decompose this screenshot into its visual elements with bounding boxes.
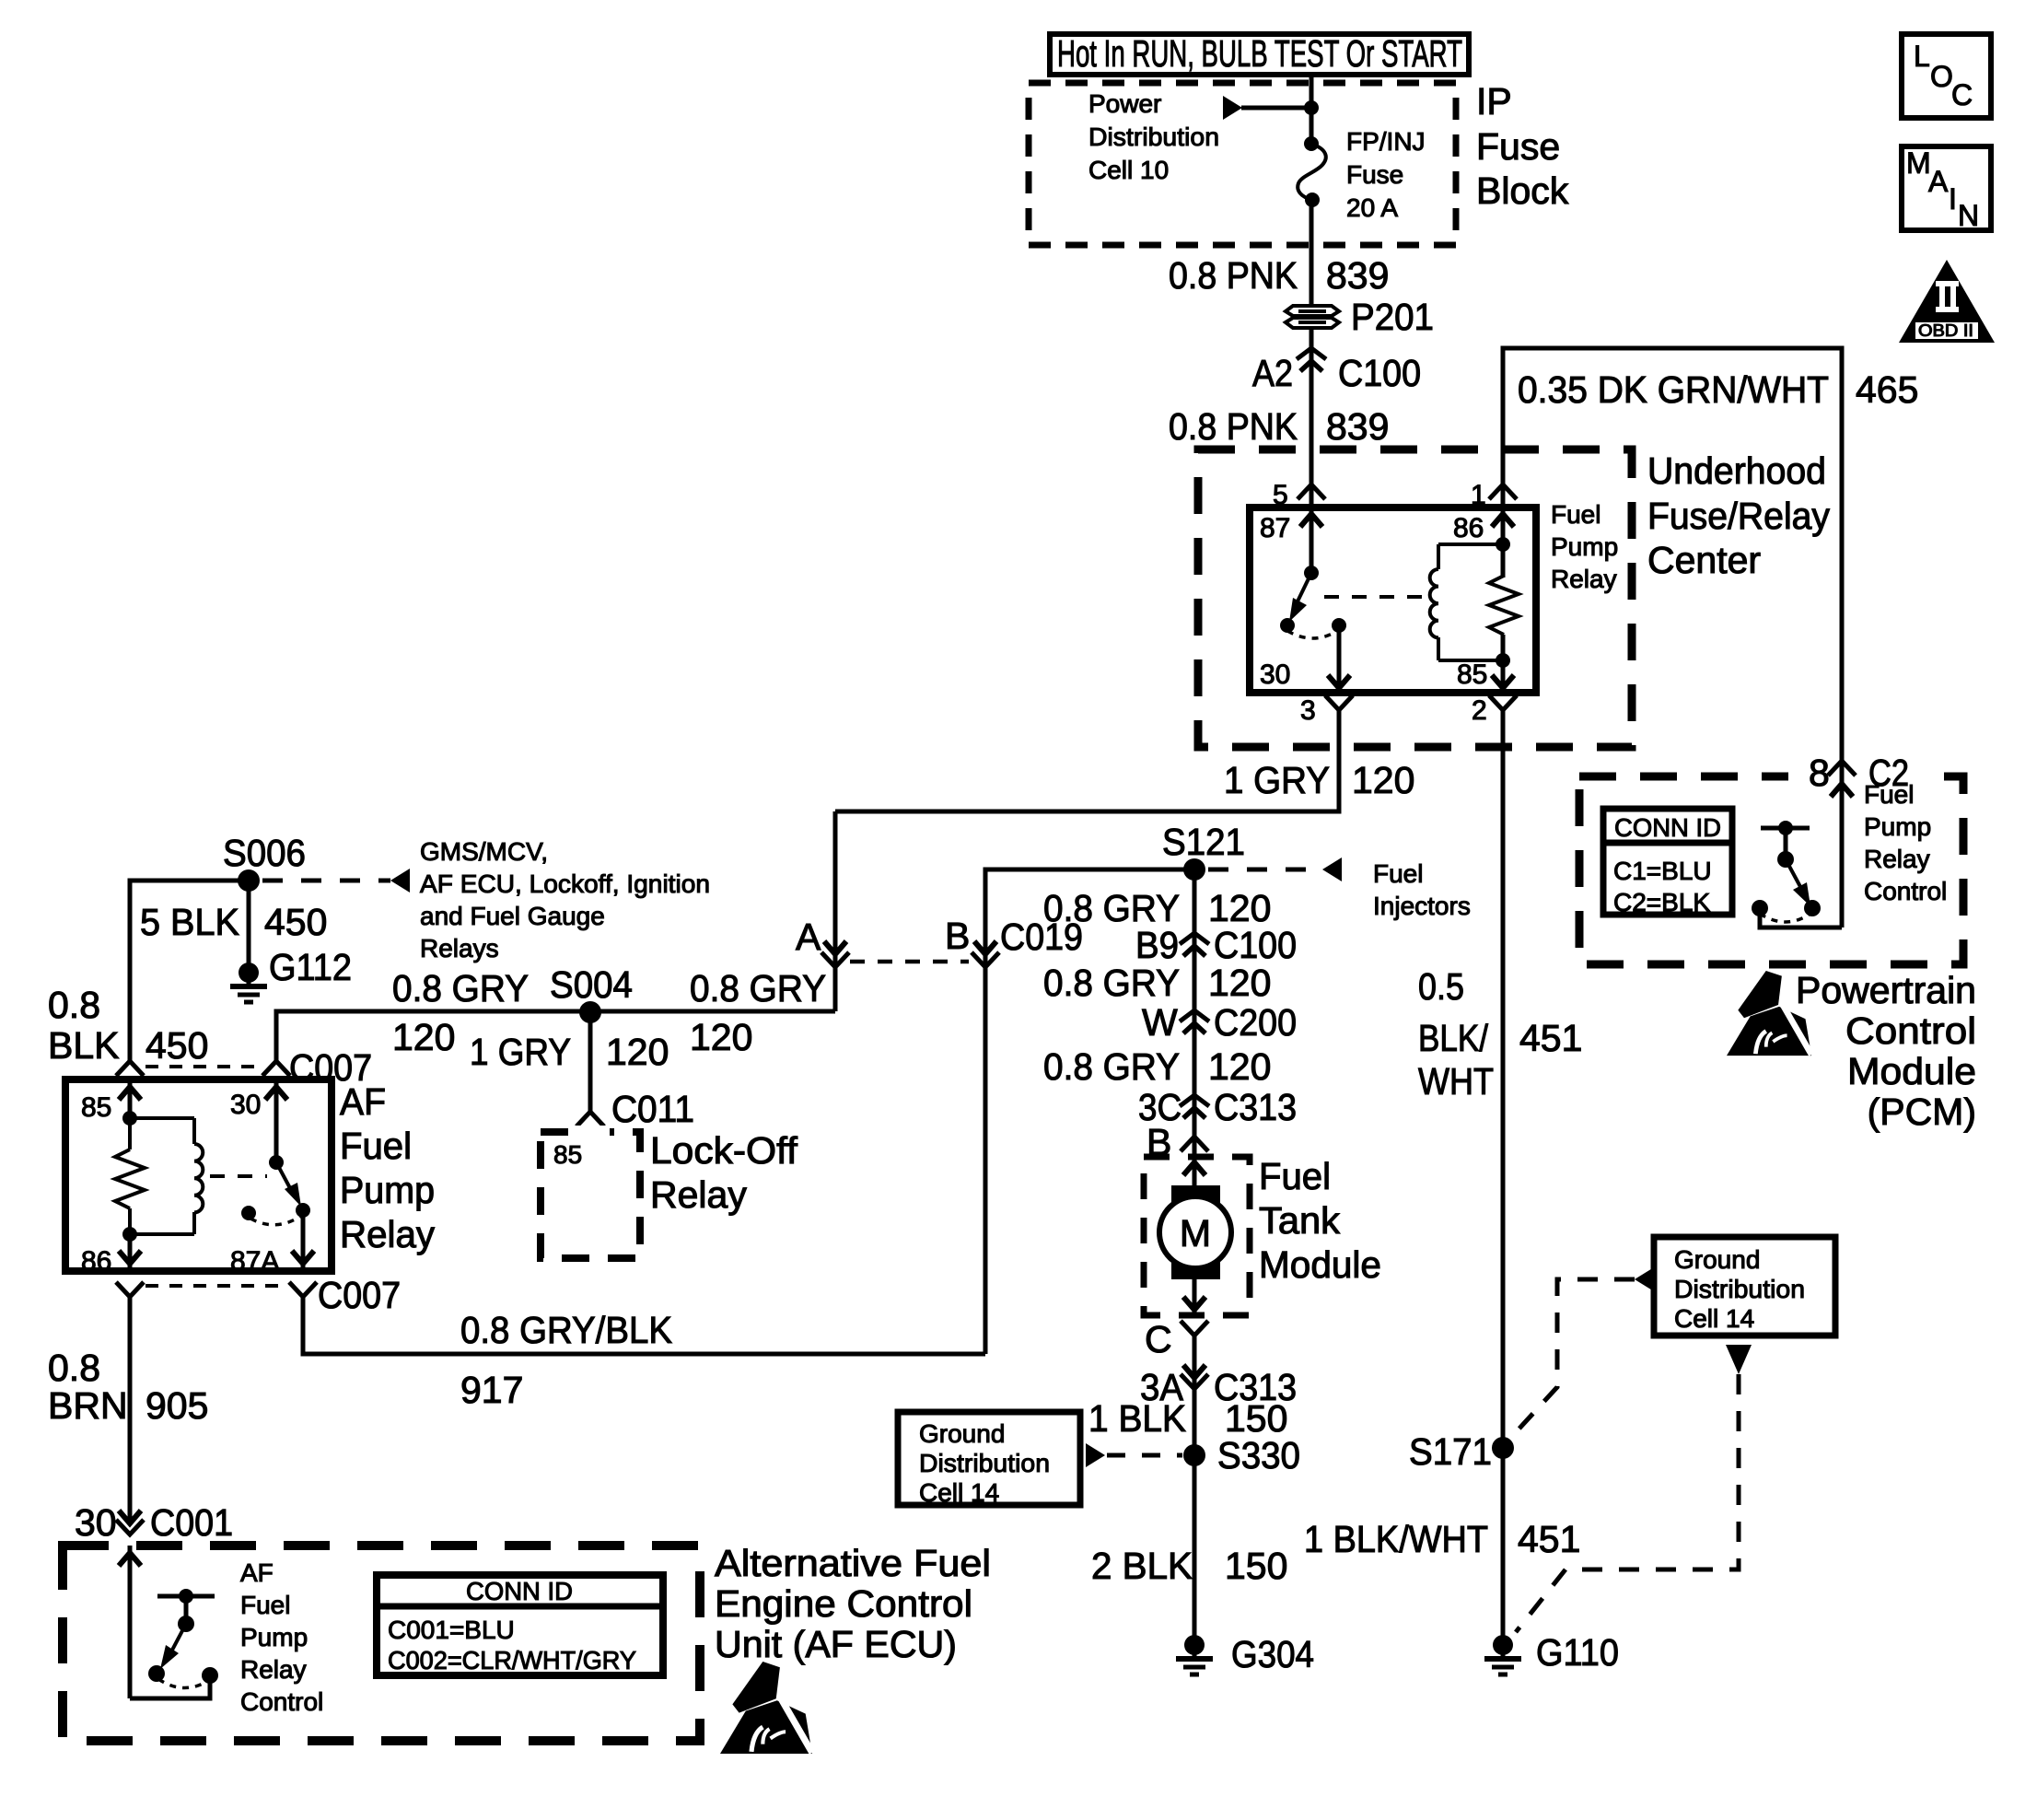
svg-text:Fuse: Fuse: [1346, 160, 1403, 189]
svg-text:C007: C007: [318, 1274, 401, 1316]
svg-text:0.8 GRY: 0.8 GRY: [392, 967, 529, 1009]
ESD symbol near AF ECU: [720, 1662, 812, 1754]
svg-text:5 BLK: 5 BLK: [140, 901, 239, 943]
wire: motor to pin C: [1193, 1275, 1197, 1315]
svg-text:451: 451: [1518, 1518, 1580, 1560]
svg-text:0.8 PNK: 0.8 PNK: [1169, 405, 1298, 448]
svg-text:0.35 DK GRN/WHT: 0.35 DK GRN/WHT: [1518, 368, 1829, 411]
svg-text:Pump: Pump: [240, 1623, 308, 1651]
svg-text:Control: Control: [1864, 877, 1947, 905]
svg-text:Module: Module: [1847, 1050, 1976, 1092]
AF relay box: [65, 1079, 332, 1271]
wire: P201 to C100: [1309, 328, 1314, 453]
ground G112: [230, 962, 267, 1002]
svg-text:450: 450: [145, 1024, 208, 1067]
svg-text:B: B: [945, 915, 970, 957]
svg-text:Distribution: Distribution: [1674, 1275, 1805, 1303]
wire: S121 branch to B/C019: [985, 869, 1194, 1354]
svg-text:30: 30: [75, 1501, 117, 1544]
svg-text:BLK/: BLK/: [1418, 1017, 1489, 1059]
svg-text:Engine Control: Engine Control: [715, 1582, 972, 1625]
svg-text:AF: AF: [340, 1080, 386, 1123]
svg-text:M: M: [1180, 1212, 1211, 1254]
svg-text:839: 839: [1326, 254, 1389, 297]
svg-text:0.8 GRY: 0.8 GRY: [690, 967, 826, 1009]
svg-text:1 GRY: 1 GRY: [1224, 759, 1330, 801]
dashed reference to GMS/MCV relays: [262, 879, 390, 883]
svg-text:S004: S004: [550, 963, 633, 1006]
svg-text:1 GRY: 1 GRY: [470, 1031, 571, 1073]
svg-text:30: 30: [230, 1090, 261, 1120]
svg-text:30: 30: [1260, 659, 1290, 690]
relay pin 87 lead: [1309, 507, 1314, 573]
svg-text:3: 3: [1300, 695, 1316, 726]
ESD symbol near PCM: [1727, 971, 1811, 1056]
connector C007 (bottom, from 87A): [289, 1282, 317, 1297]
fuel pump relay box: [1250, 507, 1536, 693]
svg-text:Fuel: Fuel: [1551, 500, 1600, 529]
svg-text:GMS/MCV,: GMS/MCV,: [420, 837, 548, 866]
wire: 0.35 DK GRN/WHT 465 run: [1503, 348, 1842, 761]
svg-text:Block: Block: [1476, 169, 1569, 212]
svg-text:Cell 14: Cell 14: [1674, 1304, 1754, 1333]
svg-text:A: A: [1928, 165, 1949, 198]
AF relay mechanical link: [210, 1174, 267, 1178]
svg-text:O: O: [1930, 60, 1953, 93]
svg-text:FP/INJ: FP/INJ: [1346, 127, 1426, 156]
dashed connector line A to B: [850, 960, 969, 964]
connector pin C of fuel tank module: [1181, 1321, 1208, 1336]
splice S004: [579, 1001, 601, 1023]
svg-text:120: 120: [690, 1016, 752, 1058]
svg-text:N: N: [1958, 199, 1979, 232]
svg-text:85: 85: [81, 1092, 111, 1123]
wire: pin C down to G304: [1193, 1336, 1197, 1645]
connector pin 2: [1489, 695, 1517, 710]
svg-text:8: 8: [1809, 752, 1830, 794]
AF relay pin 85 lead: [128, 1079, 133, 1118]
svg-text:451: 451: [1519, 1017, 1582, 1059]
connector pin B of fuel tank module: [1181, 1137, 1208, 1151]
svg-text:C2=BLK: C2=BLK: [1613, 888, 1710, 916]
svg-text:S330: S330: [1217, 1434, 1300, 1476]
node A vertical with C019 pin A: [833, 811, 838, 1011]
wire: contact to pin 3: [1337, 625, 1342, 693]
AF ECU dashed box: [63, 1546, 700, 1741]
svg-text:Fuel: Fuel: [340, 1125, 412, 1167]
relay switch arm with arrowhead: [1298, 573, 1311, 601]
svg-text:Ground: Ground: [1674, 1245, 1760, 1274]
svg-text:S121: S121: [1162, 821, 1245, 863]
svg-text:S171: S171: [1409, 1430, 1492, 1473]
junction dot at branch: [1304, 100, 1319, 115]
svg-text:87A: 87A: [230, 1246, 279, 1277]
wire: pin 2 down (0.5 BLK/WHT 451): [1501, 710, 1506, 1645]
svg-text:C: C: [1951, 78, 1973, 111]
svg-text:C001=BLU: C001=BLU: [388, 1616, 515, 1644]
wire: S121 down to fuel tank module: [1193, 869, 1197, 1157]
svg-text:Fuse/Relay: Fuse/Relay: [1647, 495, 1830, 537]
wire: pin lead inside AF ECU: [128, 1546, 133, 1698]
MAIN box icon: [1902, 146, 1991, 230]
connector C007 (top, pin to 85): [116, 1061, 144, 1076]
svg-text:Fuel: Fuel: [240, 1591, 290, 1619]
wire: contact 87A down: [301, 1210, 306, 1271]
relay coil and resistor block: [1437, 544, 1440, 569]
svg-text:C002=CLR/WHT/GRY: C002=CLR/WHT/GRY: [388, 1646, 636, 1674]
svg-text:C100: C100: [1214, 924, 1297, 966]
svg-text:85: 85: [1457, 659, 1487, 690]
IP Fuse Block dashed box: [1029, 83, 1456, 245]
dashed reference from ground distribution (left): [1086, 1443, 1105, 1467]
wire: S004 down to C011 (1 GRY 120): [588, 1012, 593, 1112]
wire: S004 run (0.8 GRY 120): [276, 1011, 835, 1061]
svg-text:0.8 GRY: 0.8 GRY: [1043, 962, 1180, 1004]
connector C011 pin: [576, 1112, 604, 1126]
svg-text:Lock-Off: Lock-Off: [650, 1129, 798, 1172]
connector B9 / C100 crossing: [1180, 933, 1209, 956]
svg-text:450: 450: [264, 901, 327, 943]
svg-text:Cell 14: Cell 14: [919, 1478, 999, 1507]
svg-text:C011: C011: [611, 1088, 694, 1130]
svg-text:I: I: [1949, 182, 1957, 216]
connector W / C200 crossing: [1180, 1010, 1209, 1033]
OBD II triangle icon: [1899, 260, 1995, 343]
svg-text:Tank: Tank: [1259, 1199, 1341, 1242]
svg-text:P201: P201: [1351, 296, 1434, 338]
switch: AF fuel pump relay control driver: [157, 1594, 215, 1599]
connector crossing A2 / C100: [1297, 348, 1326, 371]
connector pin 1: [1489, 484, 1517, 499]
svg-text:86: 86: [81, 1246, 111, 1277]
svg-text:Relay: Relay: [340, 1213, 435, 1255]
svg-text:AF: AF: [240, 1558, 274, 1587]
svg-text:G304: G304: [1231, 1633, 1314, 1675]
svg-text:Fuse: Fuse: [1476, 125, 1560, 168]
svg-text:1 BLK/WHT: 1 BLK/WHT: [1304, 1518, 1488, 1560]
splice S006: [238, 869, 260, 892]
connector 3A / C313 crossing: [1183, 1365, 1205, 1378]
svg-text:120: 120: [1352, 759, 1414, 801]
svg-text:(PCM): (PCM): [1868, 1091, 1976, 1133]
svg-text:Relay: Relay: [1551, 565, 1617, 593]
PCM dashed box: [1579, 776, 1963, 964]
wire: fuse to P201: [1309, 200, 1314, 305]
wire: pin 3 down and across (1 GRY 120): [835, 710, 1339, 811]
svg-text:BRN: BRN: [48, 1384, 128, 1427]
wire: S006 left and down to C007 (0.8 BLK 450): [130, 881, 249, 1061]
relay coil resistor zigzag: [1501, 507, 1506, 577]
svg-text:120: 120: [606, 1031, 669, 1073]
svg-text:B9: B9: [1135, 924, 1179, 966]
svg-text:120: 120: [392, 1016, 455, 1058]
svg-text:Pump: Pump: [1864, 812, 1931, 841]
svg-text:Injectors: Injectors: [1373, 892, 1471, 920]
svg-text:Module: Module: [1259, 1243, 1381, 1286]
relay switch contacts: [1280, 618, 1295, 633]
svg-text:Alternative Fuel: Alternative Fuel: [715, 1542, 991, 1584]
relay mechanical link (dashed): [1324, 595, 1424, 599]
wire: 0.8 GRY/BLK 917 run to B/C019: [303, 1297, 985, 1354]
svg-text:Center: Center: [1647, 539, 1761, 581]
svg-text:G110: G110: [1536, 1631, 1619, 1674]
svg-text:Ground: Ground: [919, 1419, 1005, 1448]
svg-text:Fuel: Fuel: [1864, 780, 1914, 809]
svg-text:85: 85: [553, 1140, 582, 1169]
svg-text:OBD II: OBD II: [1918, 321, 1973, 340]
svg-text:L: L: [1914, 40, 1930, 73]
svg-text:IP: IP: [1476, 80, 1512, 122]
AF relay pin 30 lead: [274, 1079, 279, 1162]
svg-text:150: 150: [1225, 1545, 1287, 1587]
connector pin 3: [1325, 695, 1353, 710]
svg-text:CONN ID: CONN ID: [466, 1577, 573, 1605]
svg-text:M: M: [1906, 146, 1931, 180]
CONN ID table (PCM): [1603, 809, 1732, 915]
splice S330: [1183, 1444, 1205, 1466]
svg-text:Control: Control: [240, 1687, 323, 1716]
dashed reference to G110: [1726, 1345, 1752, 1374]
svg-text:Fuel: Fuel: [1259, 1155, 1331, 1197]
svg-text:Fuel: Fuel: [1373, 859, 1423, 888]
svg-text:1 BLK: 1 BLK: [1088, 1397, 1186, 1440]
splice S171: [1492, 1437, 1514, 1459]
connector A / C019 crossing: [824, 941, 846, 954]
svg-text:Distribution: Distribution: [1088, 122, 1219, 151]
svg-text:0.8 PNK: 0.8 PNK: [1169, 254, 1298, 297]
svg-text:917: 917: [460, 1369, 523, 1411]
svg-text:Relays: Relays: [420, 934, 499, 962]
svg-text:BLK: BLK: [48, 1024, 120, 1067]
wire: pin 8 lead inside PCM: [1840, 776, 1845, 927]
svg-text:A: A: [796, 916, 821, 958]
fuel pump motor: [1193, 1157, 1197, 1196]
svg-text:86: 86: [1453, 513, 1484, 543]
svg-text:Pump: Pump: [1551, 532, 1618, 561]
Ground Distribution Cell 14 box (right): [1654, 1237, 1835, 1336]
svg-text:G112: G112: [269, 946, 352, 988]
svg-text:A2: A2: [1252, 352, 1293, 394]
svg-text:W: W: [1142, 1001, 1178, 1044]
AF relay pin 86 lead: [128, 1234, 133, 1271]
svg-text:Pump: Pump: [340, 1169, 435, 1211]
connector B / C019 crossing: [974, 941, 996, 954]
svg-text:and Fuel Gauge: and Fuel Gauge: [420, 902, 605, 930]
svg-text:C200: C200: [1214, 1001, 1297, 1044]
svg-text:0.5: 0.5: [1418, 965, 1464, 1008]
svg-text:Relay: Relay: [650, 1173, 747, 1216]
AF relay switch contacts: [241, 1206, 256, 1220]
svg-text:0.8 GRY/BLK: 0.8 GRY/BLK: [460, 1309, 672, 1351]
svg-text:Underhood: Underhood: [1647, 449, 1826, 492]
CONN ID table (AF ECU): [377, 1575, 663, 1675]
wire: S006 to G112 (5 BLK 450): [247, 881, 251, 963]
svg-text:C313: C313: [1214, 1086, 1297, 1128]
svg-text:465: 465: [1856, 368, 1918, 411]
connector 3C / C313 crossing: [1180, 1095, 1209, 1118]
ground G110: [1484, 1635, 1521, 1674]
switch: fuel pump relay control driver (PCM): [1761, 826, 1810, 831]
wire: pin5 stub into relay: [1309, 449, 1314, 507]
svg-text:0.8 GRY: 0.8 GRY: [1043, 1045, 1180, 1088]
svg-text:0.8: 0.8: [48, 984, 100, 1026]
svg-text:Power: Power: [1088, 89, 1161, 118]
connector C007 (bottom, from 86): [116, 1282, 144, 1297]
LOC box icon: [1902, 34, 1991, 118]
svg-text:2 BLK: 2 BLK: [1091, 1545, 1193, 1587]
ground G304: [1176, 1635, 1213, 1674]
AF relay coil: [130, 1116, 194, 1120]
svg-text:C001: C001: [150, 1501, 233, 1544]
svg-text:120: 120: [1208, 1045, 1271, 1088]
connector pin 5: [1298, 484, 1325, 499]
AF relay switch arm: [276, 1162, 290, 1188]
svg-text:Hot In RUN, BULB TEST Or START: Hot In RUN, BULB TEST Or START: [1057, 32, 1462, 75]
Ground Distribution Cell 14 box (left): [898, 1412, 1080, 1505]
svg-text:Relay: Relay: [1864, 845, 1930, 873]
svg-text:Unit (AF ECU): Unit (AF ECU): [715, 1623, 957, 1665]
relay switch pivot: [1304, 566, 1319, 580]
node: Hot In RUN banner box: [1050, 34, 1469, 75]
connector C007 (top, pin to 30): [262, 1061, 290, 1076]
svg-text:905: 905: [145, 1384, 208, 1427]
svg-text:AF ECU, Lockoff, Ignition: AF ECU, Lockoff, Ignition: [420, 869, 710, 898]
AF relay resistor: [128, 1118, 132, 1149]
wire: 0.8 BRN 905 down to C001: [128, 1297, 133, 1522]
svg-text:2: 2: [1472, 695, 1487, 726]
svg-text:839: 839: [1326, 405, 1389, 448]
svg-text:Cell 10: Cell 10: [1088, 156, 1169, 184]
Underhood dashed box: [1198, 449, 1632, 747]
svg-text:S006: S006: [223, 832, 306, 874]
fuse FP/INJ 20A: s-curve between dots: [1304, 136, 1319, 151]
svg-text:Control: Control: [1845, 1009, 1976, 1052]
svg-text:WHT: WHT: [1418, 1060, 1494, 1102]
dashed reference to S171: [1635, 1267, 1654, 1291]
wire: main feed from hot box into fuse: [1309, 75, 1314, 144]
off-page arrow to Power Distribution: [1223, 96, 1242, 120]
svg-text:Distribution: Distribution: [919, 1449, 1050, 1477]
svg-text:C: C: [1145, 1318, 1172, 1360]
svg-text:CONN ID: CONN ID: [1614, 813, 1721, 842]
splice S121: [1183, 858, 1205, 881]
svg-text:Relay: Relay: [240, 1655, 307, 1684]
wire: branch to power distribution: [1241, 106, 1311, 111]
connector 30 / C001: [119, 1511, 141, 1523]
svg-text:Powertrain: Powertrain: [1796, 969, 1976, 1011]
wire: pin1 stub into relay: [1501, 449, 1506, 507]
AF relay switch pivot: [269, 1155, 284, 1170]
connector pin 8 / C2 of PCM: [1828, 761, 1856, 776]
svg-text:0.8: 0.8: [48, 1347, 100, 1389]
dashed reference to fuel injectors: [1208, 868, 1322, 872]
connector P201 grommet symbol: [1286, 306, 1339, 328]
svg-text:C100: C100: [1338, 352, 1421, 394]
Lock-Off Relay dashed box: [541, 1132, 640, 1258]
svg-text:120: 120: [1208, 962, 1271, 1004]
svg-text:20 A: 20 A: [1346, 193, 1398, 222]
svg-text:C1=BLU: C1=BLU: [1613, 857, 1712, 885]
Fuel Tank Module dashed box: [1144, 1157, 1250, 1315]
svg-text:87: 87: [1260, 513, 1290, 543]
